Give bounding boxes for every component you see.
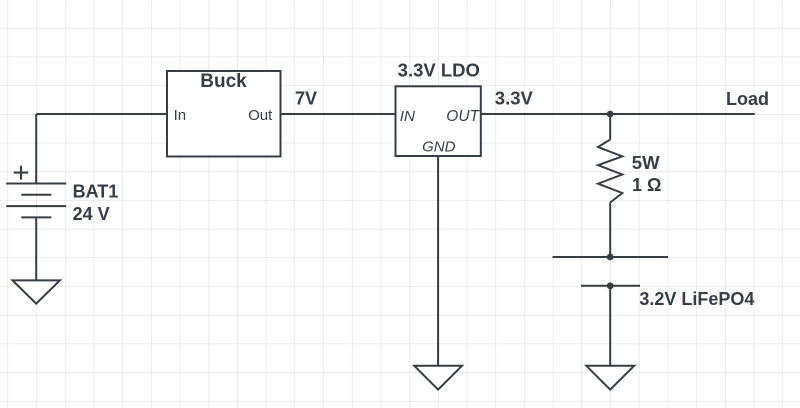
op box 3.3V LDO (396, 86, 481, 156)
wire battery2 to ground (609, 286, 611, 366)
svg-text:Out: Out (248, 107, 273, 124)
wire LDO out to Load (481, 113, 755, 115)
svg-text:3.2V LiFePO4: 3.2V LiFePO4 (639, 289, 754, 309)
svg-text:Load: Load (726, 89, 769, 109)
battery2 plates 3.2V LiFePO4 (553, 256, 669, 258)
ground (left) (13, 280, 60, 303)
battery BAT1 (6, 166, 66, 218)
svg-text:BAT1: BAT1 (73, 182, 119, 202)
svg-text:1 Ω: 1 Ω (632, 175, 661, 195)
svg-text:IN: IN (400, 108, 415, 125)
svg-text:Buck: Buck (200, 71, 247, 92)
junction dot battery2 top plate (607, 254, 614, 261)
svg-text:3.3V LDO: 3.3V LDO (398, 59, 480, 80)
wire resistor to battery2 (609, 203, 611, 258)
resistor R1 zigzag (598, 140, 622, 203)
svg-text:GND: GND (422, 139, 456, 156)
Buck box U1 (167, 71, 281, 157)
junction dot battery2 bottom plate (607, 282, 614, 289)
ground (right) (586, 366, 634, 390)
wire battery to Buck (36, 113, 167, 115)
wire battery bottom lead (35, 217, 37, 280)
svg-text:24 V: 24 V (73, 204, 110, 224)
svg-text:5W: 5W (632, 152, 660, 173)
svg-text:3.3V: 3.3V (495, 87, 534, 108)
svg-text:7V: 7V (295, 88, 317, 108)
ground (LDO) (414, 366, 462, 390)
junction node dot on output wire (607, 111, 614, 118)
svg-text:In: In (174, 107, 187, 124)
wire Buck to LDO (281, 113, 396, 115)
wire junction to resistor (609, 114, 611, 140)
svg-text:OUT: OUT (446, 108, 480, 125)
wire battery top lead (35, 114, 37, 184)
wire LDO GND lead (437, 156, 439, 366)
